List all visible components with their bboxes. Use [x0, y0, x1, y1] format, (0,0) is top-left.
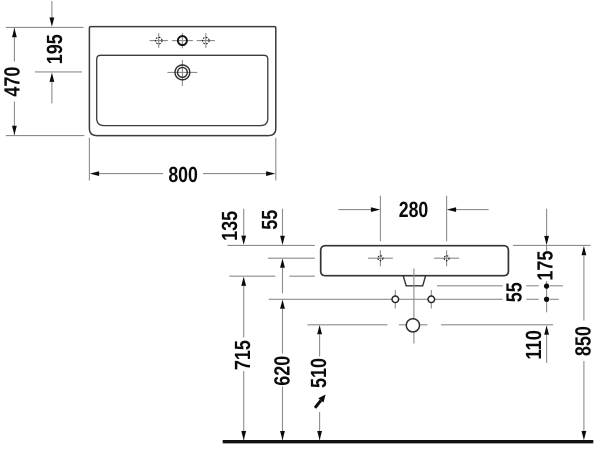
extension line bottom of plan	[6, 135, 85, 137]
svg-text:135: 135	[217, 211, 242, 241]
tap hole left (dashed, optional)	[150, 33, 168, 48]
dimension 510	[306, 325, 331, 440]
svg-text:850: 850	[570, 326, 595, 356]
dimension 195	[42, 1, 67, 103]
svg-text:55: 55	[257, 210, 282, 230]
dimension 850	[570, 246, 595, 440]
floor line	[223, 440, 594, 443]
svg-text:195: 195	[42, 34, 67, 64]
terminator dot lower	[544, 297, 549, 302]
svg-text:620: 620	[269, 356, 294, 386]
plan view: inner basin bowl	[97, 55, 268, 125]
tap hole right (dashed, optional)	[197, 33, 215, 48]
dimension 110	[521, 325, 549, 363]
terminator dot upper	[544, 283, 549, 288]
plan drain / overflow	[167, 60, 197, 86]
svg-text:55: 55	[501, 282, 526, 302]
svg-text:175: 175	[533, 251, 558, 281]
svg-text:510: 510	[306, 358, 331, 388]
dimension 620	[269, 300, 294, 441]
dimension 280	[338, 196, 488, 242]
extension line tap level	[268, 257, 315, 259]
extension line basin top level	[228, 244, 315, 246]
extension line fixing hole level	[269, 298, 503, 300]
svg-text:280: 280	[399, 197, 429, 222]
tap hole centre	[172, 33, 193, 48]
elevation drain hole	[406, 319, 419, 332]
extension line trapezoid bottom level	[437, 285, 503, 287]
wall fixing cross left (in basin)	[368, 250, 393, 266]
extension line top of plan	[6, 26, 84, 28]
extension line drain level	[308, 324, 388, 326]
svg-text:715: 715	[230, 340, 255, 370]
dimension 800	[89, 138, 275, 187]
dimension 135	[217, 209, 246, 245]
dimension 715	[230, 277, 255, 441]
dimension 470	[0, 28, 25, 135]
extension line drain centre (plan)	[35, 71, 82, 73]
svg-text:800: 800	[168, 162, 198, 187]
svg-text:470: 470	[0, 67, 25, 97]
elevation: drain fitting trapezoid	[403, 276, 425, 286]
fixing hole left	[392, 290, 399, 309]
dimension 55 upper left	[257, 209, 285, 293]
wall fixing cross right (in basin)	[434, 250, 459, 266]
fixing hole right	[428, 290, 435, 309]
svg-text:110: 110	[521, 330, 546, 360]
plan view: outer basin rim	[89, 27, 275, 136]
adjustable-height arrow (diagonal)	[315, 395, 326, 408]
dimension 175	[533, 209, 558, 312]
elevation: basin body	[321, 246, 509, 276]
extension line basin bottom level	[229, 275, 275, 277]
elevation centre line	[413, 269, 415, 344]
